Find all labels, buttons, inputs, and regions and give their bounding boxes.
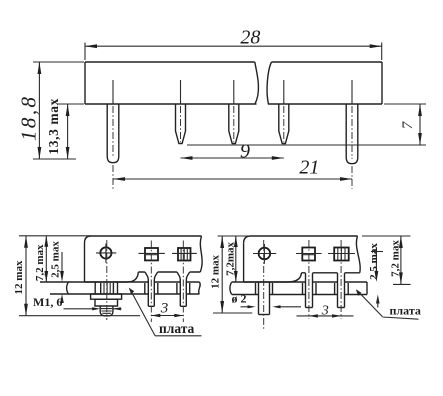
svg-text:18,8: 18,8 xyxy=(17,95,41,141)
svg-text:12 max: 12 max xyxy=(210,254,222,288)
svg-text:3: 3 xyxy=(160,301,169,317)
svg-text:12 max: 12 max xyxy=(13,260,25,294)
svg-text:ø 2: ø 2 xyxy=(232,292,247,306)
svg-text:13,3 max: 13,3 max xyxy=(46,98,61,155)
svg-text:2.5 max: 2.5 max xyxy=(368,243,380,280)
svg-text:2,5 max: 2,5 max xyxy=(49,241,61,278)
svg-text:7,2 max: 7,2 max xyxy=(34,244,46,281)
svg-text:21: 21 xyxy=(299,157,319,179)
svg-text:плата: плата xyxy=(390,304,421,318)
svg-text:7,2 max: 7,2 max xyxy=(389,240,401,277)
svg-text:3: 3 xyxy=(321,304,329,319)
svg-text:7,2max: 7,2max xyxy=(224,241,236,275)
svg-text:М1, 6: М1, 6 xyxy=(33,295,62,309)
svg-text:28: 28 xyxy=(240,27,260,49)
svg-text:9: 9 xyxy=(240,141,250,163)
svg-text:плата: плата xyxy=(159,321,195,336)
